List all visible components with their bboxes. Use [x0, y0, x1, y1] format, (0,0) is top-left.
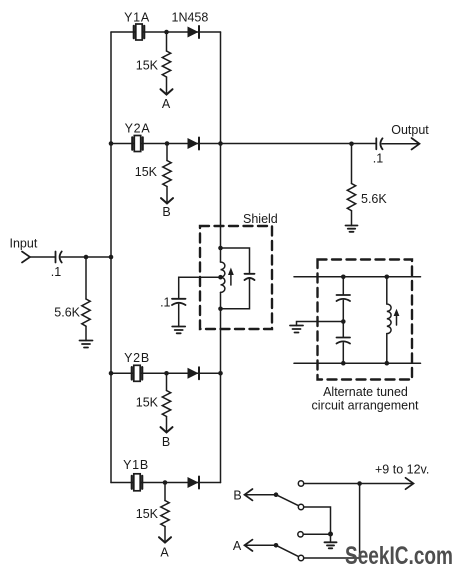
- crystal Y2A: [125, 122, 151, 152]
- svg-text:.1: .1: [51, 265, 61, 279]
- svg-text:5.6K: 5.6K: [54, 306, 80, 320]
- ground alternate: [290, 326, 303, 333]
- svg-text:A: A: [233, 539, 242, 553]
- node input junction: [84, 255, 89, 260]
- wire arrow to B row2: [161, 187, 173, 220]
- node row4 junction: [163, 480, 168, 485]
- wire supply line: [304, 478, 413, 489]
- svg-text:5.6K: 5.6K: [361, 192, 387, 206]
- capacitor .1 shield tap: [160, 296, 185, 310]
- diode row2: [188, 138, 200, 150]
- node row3 left bus junction: [109, 371, 114, 376]
- wire right bus lower: [220, 292, 222, 482]
- svg-text:+9 to 12v.: +9 to 12v.: [375, 463, 429, 477]
- node row1 junction: [164, 30, 169, 35]
- capacitor alt upper: [337, 277, 351, 322]
- wire B arm: [233, 489, 298, 506]
- wire alternate bottom: [294, 362, 421, 364]
- wire arrow to B row3: [161, 417, 173, 450]
- resistor 5.6K output: [347, 144, 387, 211]
- wire output line: [221, 143, 376, 145]
- wire arrow to A row1: [161, 77, 173, 111]
- svg-text:15K: 15K: [136, 396, 159, 410]
- node alt center tap: [341, 319, 346, 324]
- wire contact3 to ground: [304, 533, 331, 535]
- node shield top junction: [218, 246, 223, 251]
- svg-text:B: B: [162, 435, 170, 449]
- wire alt tap to ground: [297, 322, 344, 326]
- resistor 5.6K input: [54, 257, 90, 326]
- node row2 junction: [165, 141, 170, 146]
- crystal Y1A: [124, 11, 150, 41]
- svg-text:15K: 15K: [135, 165, 158, 179]
- resistor 15K row4: [136, 483, 169, 527]
- wire supply vertical: [359, 484, 361, 559]
- wire row3 Y2B horizontal: [111, 372, 221, 374]
- wire alternate inductor arrow: [394, 309, 400, 325]
- wire input segment: [30, 256, 56, 258]
- svg-text:Y1A: Y1A: [124, 11, 150, 25]
- svg-text:A: A: [162, 97, 171, 111]
- svg-text:15K: 15K: [136, 59, 159, 73]
- node output junction: [349, 142, 354, 147]
- wire arrow to A row4: [159, 527, 171, 560]
- svg-text:Y1B: Y1B: [123, 458, 149, 472]
- resistor 15K row2: [135, 144, 171, 187]
- node input bus junction: [109, 255, 114, 260]
- wire contact4 to supply vertical: [304, 557, 359, 559]
- svg-text:.1: .1: [160, 296, 170, 310]
- wire input to bus: [61, 256, 111, 258]
- node alt left bottom: [341, 361, 346, 366]
- diode row4: [188, 477, 200, 489]
- wire A arm: [233, 539, 298, 556]
- switch contact 4: [298, 555, 303, 560]
- svg-text:Y2B: Y2B: [124, 351, 150, 365]
- svg-text:15K: 15K: [136, 507, 159, 521]
- wire L1 arrow: [228, 268, 234, 286]
- shield dashed box: [200, 226, 272, 329]
- svg-text:SeekIC.com: SeekIC.com: [345, 542, 453, 570]
- resistor 15K row3: [136, 373, 171, 416]
- node row2 right bus junction: [218, 141, 223, 146]
- switch contact 1: [298, 481, 303, 486]
- svg-text:Y2A: Y2A: [125, 122, 151, 136]
- resistor 15K row1: [136, 32, 171, 77]
- wire contact2 to ground: [304, 507, 330, 534]
- crystal Y1B: [123, 458, 149, 491]
- svg-text:Alternate tuned: Alternate tuned: [323, 385, 408, 399]
- switch contact 3: [298, 532, 303, 537]
- capacitor .1 output: [373, 138, 383, 165]
- crystal Y2B: [124, 351, 150, 381]
- wire alternate top: [294, 276, 421, 278]
- alternate tuned circuit dashed box: [318, 260, 413, 380]
- wire row2 Y2A horizontal: [111, 143, 221, 145]
- capacitor .1 input: [51, 252, 62, 280]
- ground input: [80, 326, 93, 347]
- node inductor tap: [218, 275, 223, 280]
- node supply junction: [357, 481, 362, 486]
- wire output arrow: [382, 123, 429, 150]
- inductor alternate: [387, 277, 391, 363]
- capacitor alt lower: [337, 322, 351, 364]
- node row2 left bus junction: [109, 141, 114, 146]
- node shield bottom junction: [218, 307, 223, 312]
- wire left bus: [110, 32, 112, 483]
- ground output: [346, 211, 358, 232]
- svg-text:A: A: [160, 546, 169, 560]
- wire tap to cap: [179, 277, 221, 298]
- svg-text:Output: Output: [391, 123, 429, 137]
- diode 1N458: [172, 11, 209, 39]
- ground shield tap: [172, 304, 185, 333]
- node row3 right bus junction: [218, 371, 223, 376]
- node row3 junction: [164, 371, 169, 376]
- node ground junction: [328, 532, 333, 537]
- wire input arrow: [22, 252, 30, 263]
- svg-text:Shield: Shield: [243, 212, 278, 226]
- svg-text:B: B: [233, 489, 241, 503]
- svg-text:1N458: 1N458: [172, 11, 209, 25]
- node alt right bottom: [385, 361, 390, 366]
- wire row4 Y1B horizontal: [111, 482, 221, 484]
- wire row1 Y1A horizontal: [111, 31, 221, 33]
- alternate caption: [312, 385, 420, 413]
- svg-text:B: B: [162, 205, 170, 219]
- inductor L1: [221, 262, 225, 292]
- svg-text:circuit arrangement: circuit arrangement: [312, 399, 420, 413]
- svg-text:Input: Input: [10, 237, 38, 251]
- wire right bus upper: [220, 32, 222, 262]
- svg-text:.1: .1: [373, 152, 383, 166]
- diode row3: [188, 367, 200, 379]
- switch contact 2: [298, 504, 303, 509]
- node alt left top: [341, 275, 346, 280]
- capacitor shield tank: [221, 248, 255, 309]
- node alt right top: [385, 275, 390, 280]
- ground switch: [325, 534, 337, 548]
